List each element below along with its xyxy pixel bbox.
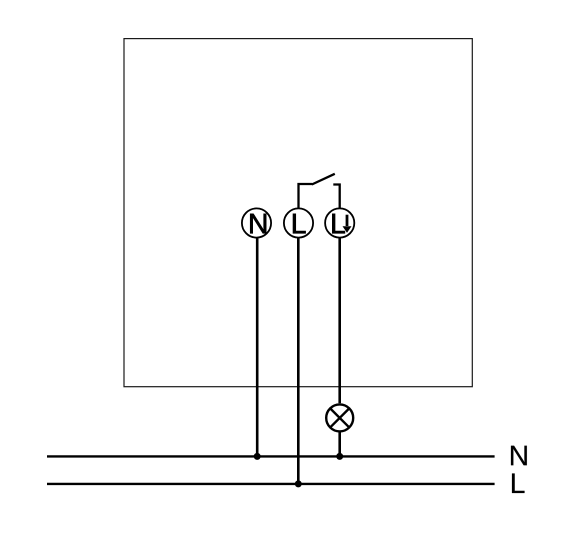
- N bus line: [47, 455, 495, 457]
- switch fixed contact stub down to L-arrow terminal: [333, 185, 339, 210]
- wire: L-arrow terminal down to lamp: [338, 238, 341, 404]
- wire: N terminal down to N bus: [256, 238, 259, 457]
- lamp E1: [326, 404, 353, 431]
- junction dot: N wire on N bus: [254, 453, 261, 460]
- wire: L terminal up to switch: [299, 184, 313, 209]
- terminal N: [242, 208, 271, 237]
- wire: lamp down to N bus: [338, 431, 341, 456]
- junction dot: lamp wire on N bus: [336, 453, 343, 460]
- label N (right of N bus): [511, 446, 527, 466]
- switch S1 blade: [312, 174, 335, 185]
- junction dot: L wire on L bus: [295, 480, 302, 487]
- label L (right of L bus): [512, 473, 524, 493]
- device enclosure box: [124, 39, 472, 387]
- terminal L: [284, 208, 313, 237]
- wire: L terminal down to L bus: [297, 238, 300, 484]
- L bus line: [47, 483, 495, 485]
- down arrow inside L-arrow terminal: [346, 215, 349, 226]
- terminal L-arrow (switched live output): [325, 208, 354, 237]
